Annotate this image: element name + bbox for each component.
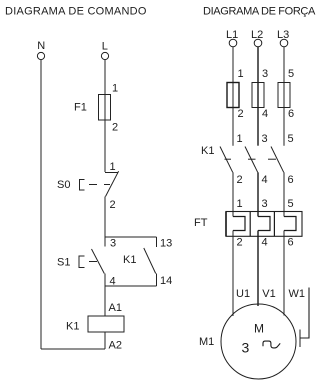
wire contactor to FT phase 3 (283, 172, 285, 216)
terminal L3 (280, 39, 288, 47)
svg-text:3: 3 (262, 68, 268, 80)
S0 actuator dashed link (89, 184, 110, 186)
pushbutton S0 (NC) moving arm (106, 171, 119, 196)
svg-text:5: 5 (288, 133, 294, 145)
svg-text:2: 2 (238, 108, 244, 120)
terminal L1 (229, 39, 237, 47)
wire L2 to fuse (257, 47, 259, 83)
contactor K1 pole 1 arm (220, 147, 233, 173)
svg-text:5: 5 (288, 198, 294, 210)
fuse (phase L3) (278, 83, 290, 108)
PE wire to motor frame (301, 288, 310, 339)
svg-text:13: 13 (160, 238, 172, 250)
svg-text:A1: A1 (109, 302, 122, 314)
svg-text:1: 1 (237, 198, 243, 210)
svg-text:K1: K1 (201, 145, 214, 157)
wire through fuse L3 (283, 83, 285, 108)
K1 aux bottom stub (156, 274, 158, 287)
wire L down to S0 (104, 60, 106, 172)
svg-text:W1: W1 (289, 288, 306, 300)
svg-text:4: 4 (262, 237, 268, 249)
S1 actuator dashed link (89, 261, 97, 263)
S1 bottom stub (104, 274, 106, 287)
wire FT to motor U1 (232, 231, 234, 317)
K1 aux contact moving arm (144, 248, 156, 274)
svg-text:K1: K1 (66, 321, 79, 333)
svg-text:3: 3 (242, 340, 250, 356)
wire fuse L1 to contactor (232, 108, 234, 146)
svg-text:3: 3 (110, 238, 116, 250)
wire L1 to fuse (232, 47, 234, 83)
svg-text:6: 6 (288, 108, 294, 120)
svg-text:5: 5 (288, 68, 294, 80)
contactor K1 pole 2 arm (245, 147, 258, 173)
svg-text:M: M (254, 322, 264, 336)
wire through fuse L1 (232, 83, 234, 108)
contactor linkage dash 1 (225, 158, 232, 160)
svg-text:6: 6 (288, 237, 294, 249)
svg-text:2: 2 (110, 199, 116, 211)
wire L3 to fuse (283, 47, 285, 83)
pushbutton S1 (NO) top stub (104, 237, 106, 247)
terminal L2 (254, 39, 262, 47)
svg-text:1: 1 (110, 161, 116, 173)
motor frame terminal bar (299, 330, 301, 348)
contactor linkage dash 3 (268, 158, 276, 160)
svg-text:L: L (102, 41, 108, 53)
svg-text:14: 14 (160, 275, 172, 287)
svg-text:4: 4 (262, 108, 268, 120)
coil K1 (88, 316, 124, 332)
pushbutton S0 (NC) fixed bar (105, 172, 118, 174)
svg-text:3: 3 (262, 133, 268, 145)
wire contactor to FT phase 1 (232, 172, 234, 216)
terminal L (101, 52, 108, 59)
pushbutton S1 (NO) moving arm (92, 249, 105, 274)
contactor linkage dash 2 (248, 158, 256, 160)
svg-text:M1: M1 (199, 336, 214, 348)
pushbutton S0 actuator (80, 180, 85, 191)
svg-text:K1: K1 (123, 254, 136, 266)
wire S0 to node 3 (104, 197, 106, 238)
wire fuse L3 to contactor (283, 108, 285, 146)
wire N vertical (40, 60, 42, 349)
wire FT to motor W1 (283, 231, 285, 316)
overload relay FT body (226, 212, 302, 237)
svg-text:1: 1 (237, 133, 243, 145)
svg-text:U1: U1 (236, 288, 250, 300)
wire coil A2 down (104, 332, 106, 349)
svg-text:2: 2 (237, 174, 243, 186)
svg-text:DIAGRAMA DE FORÇA: DIAGRAMA DE FORÇA (203, 5, 316, 17)
wire through fuse L2 (257, 83, 259, 108)
node 4 bottom rail (105, 285, 157, 287)
svg-text:1: 1 (238, 68, 244, 80)
svg-text:S1: S1 (57, 257, 70, 269)
svg-text:6: 6 (288, 174, 294, 186)
wire contactor to FT phase 2 (257, 172, 259, 216)
FT heater element phase 1 loop (233, 217, 245, 231)
svg-text:4: 4 (262, 174, 268, 186)
svg-text:FT: FT (194, 217, 208, 229)
svg-text:F1: F1 (74, 102, 87, 114)
contactor K1 pole 3 arm (271, 147, 284, 173)
wire return to N (41, 348, 105, 350)
motor M1 body (221, 304, 296, 379)
node 3 top rail (105, 236, 157, 238)
motor AC squiggle (263, 341, 280, 348)
svg-text:V1: V1 (262, 288, 275, 300)
FT heater element phase 2 loop (258, 217, 270, 231)
svg-text:N: N (37, 40, 45, 52)
FT body left edge (phase 1 bar) (225, 212, 227, 237)
FT heater element phase 2 bar (249, 212, 251, 237)
pushbutton S1 actuator (79, 256, 85, 268)
fuse (phase L2) (252, 83, 264, 108)
wire FT to motor V1 (257, 231, 259, 307)
FT heater element phase 3 bar (273, 212, 275, 237)
FT heater element phase 3 loop (284, 217, 296, 231)
svg-text:2: 2 (112, 122, 118, 134)
svg-text:1: 1 (112, 83, 118, 95)
wire fuse L2 to contactor (257, 108, 259, 146)
svg-text:DIAGRAMA DE COMANDO: DIAGRAMA DE COMANDO (5, 5, 147, 17)
terminal N (37, 52, 44, 59)
fuse (phase L1) (227, 83, 239, 108)
wire node 4 to coil A1 (104, 286, 106, 316)
svg-text:A2: A2 (109, 340, 122, 352)
svg-text:3: 3 (262, 198, 268, 210)
K1 aux contact top stub (156, 237, 158, 247)
fuse F1 (99, 95, 111, 121)
svg-text:S0: S0 (57, 179, 70, 191)
svg-text:2: 2 (237, 237, 243, 249)
